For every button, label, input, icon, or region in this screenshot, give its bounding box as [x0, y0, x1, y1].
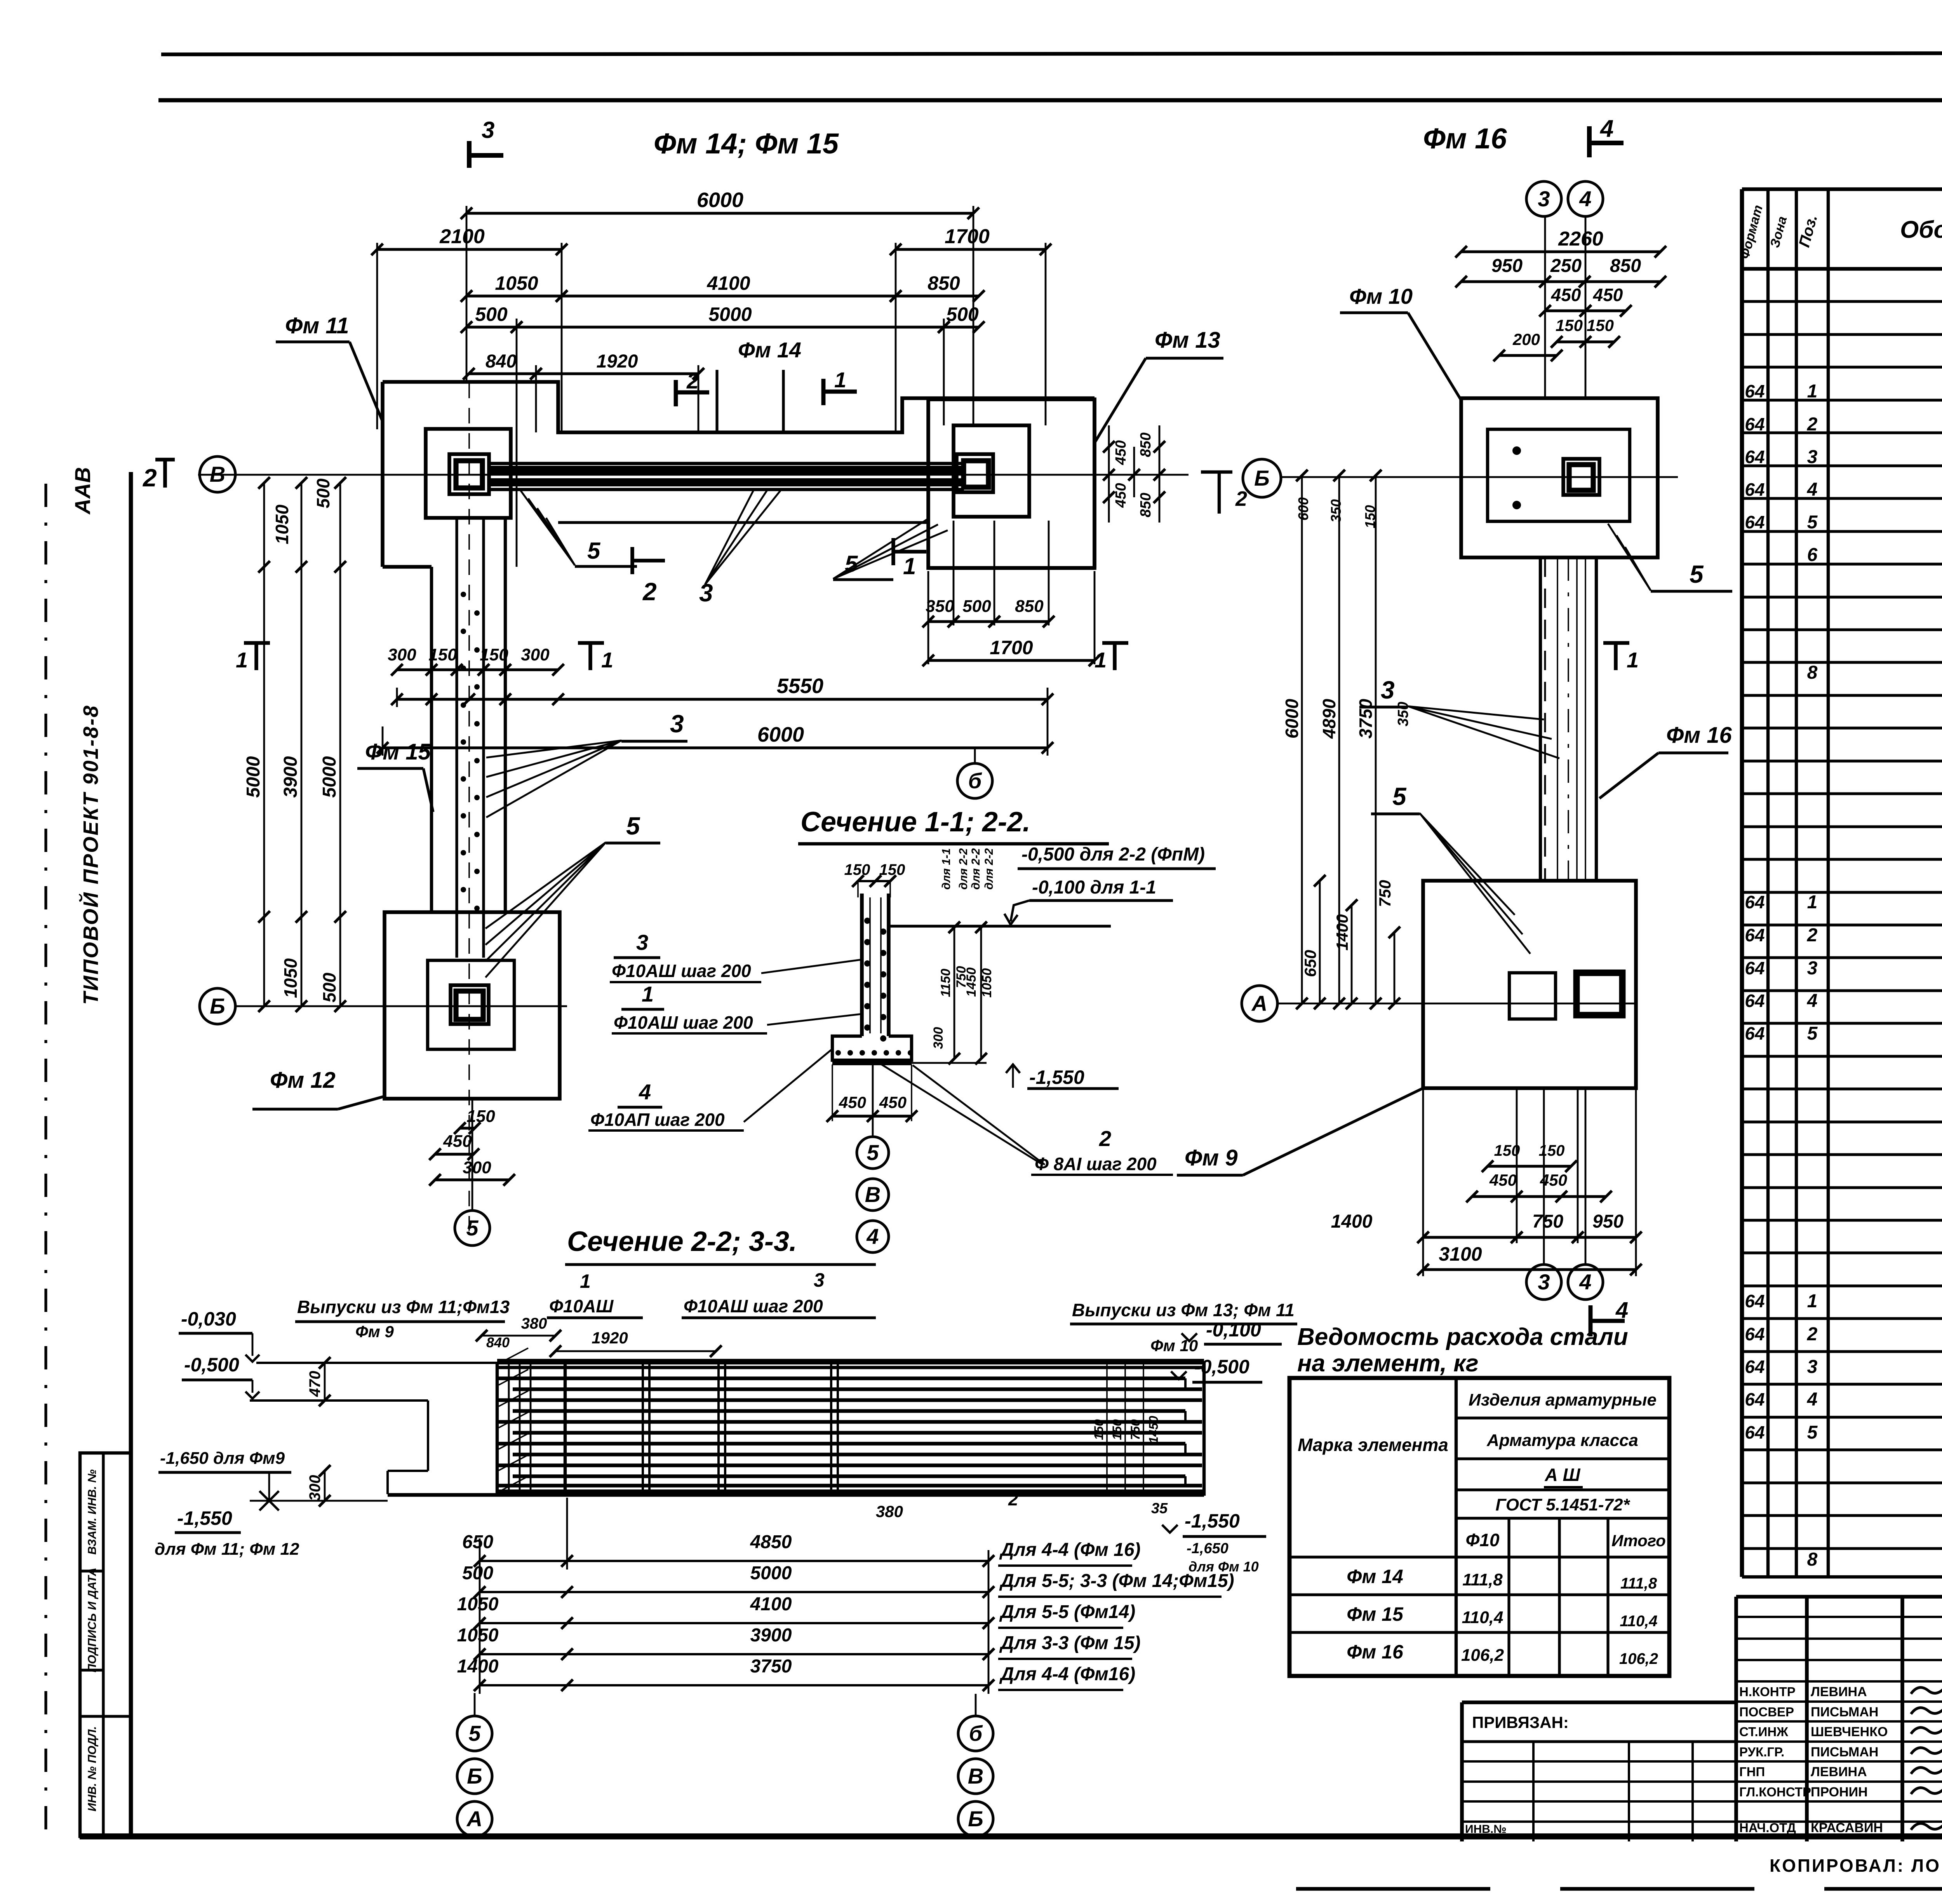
svg-text:200: 200: [1512, 330, 1540, 348]
svg-text:5000: 5000: [243, 756, 264, 798]
svg-text:-1,550: -1,550: [177, 1507, 232, 1529]
svg-text:Ф10АШ: Ф10АШ: [549, 1296, 614, 1316]
spec table row lines: [1742, 300, 1942, 303]
svg-text:150: 150: [466, 1107, 495, 1126]
svg-text:для 1-1: для 1-1: [940, 848, 953, 890]
svg-text:Для 5-5; 3-3 (Фм 14;Фм15): Для 5-5; 3-3 (Фм 14;Фм15): [999, 1571, 1234, 1591]
rotated dims 470 300: [324, 1363, 326, 1401]
svg-text:4850: 4850: [750, 1532, 792, 1552]
svg-text:5: 5: [1807, 512, 1818, 533]
svg-text:ПИСЬМАН: ПИСЬМАН: [1811, 1705, 1878, 1719]
svg-text:5: 5: [1392, 782, 1407, 810]
svg-text:850: 850: [1015, 597, 1044, 616]
svg-text:2: 2: [1807, 1324, 1818, 1345]
svg-text:64: 64: [1745, 892, 1765, 912]
svg-text:3: 3: [670, 710, 684, 738]
svg-text:64: 64: [1745, 1422, 1765, 1442]
wall Фм16: [1539, 557, 1542, 881]
svg-text:64: 64: [1745, 1389, 1765, 1409]
spec table vline: [1740, 189, 1744, 1577]
svg-text:1050: 1050: [980, 968, 994, 998]
svg-text:1050: 1050: [495, 272, 538, 294]
svg-text:ПИСЬМАН: ПИСЬМАН: [1811, 1745, 1878, 1759]
svg-text:500: 500: [475, 303, 508, 325]
svg-text:2: 2: [642, 578, 657, 606]
svg-text:1: 1: [1807, 1291, 1818, 1312]
svg-text:Фм 16: Фм 16: [1666, 723, 1732, 748]
wall top level line: [889, 925, 1111, 927]
svg-text:Б: Б: [467, 1764, 482, 1788]
svg-text:Фм 16: Фм 16: [1347, 1641, 1404, 1663]
attr column box: [80, 1453, 131, 1836]
svg-text:500: 500: [313, 478, 333, 508]
svg-text:150: 150: [1539, 1142, 1565, 1159]
svg-text:1450: 1450: [964, 967, 979, 997]
pad Фм9 lower: [1423, 881, 1636, 1088]
svg-text:Марка элемента: Марка элемента: [1298, 1435, 1448, 1455]
svg-text:Фм 9: Фм 9: [355, 1322, 394, 1341]
svg-text:750: 750: [1532, 1211, 1563, 1232]
pad Фм16 top: [1461, 398, 1658, 557]
svg-text:1: 1: [580, 1270, 591, 1292]
svg-text:Фм 12: Фм 12: [270, 1068, 336, 1093]
svg-text:для 2-2: для 2-2: [957, 848, 970, 890]
svg-text:150: 150: [1556, 316, 1583, 334]
svg-text:300: 300: [388, 645, 416, 664]
svg-text:1400: 1400: [1331, 1211, 1373, 1232]
frame top border: [158, 98, 1942, 103]
svg-text:Фм 15: Фм 15: [365, 739, 431, 765]
svg-text:650: 650: [462, 1532, 493, 1552]
svg-text:4890: 4890: [1319, 699, 1339, 739]
svg-text:3750: 3750: [1356, 699, 1376, 739]
svg-text:Фм 9: Фм 9: [1185, 1145, 1238, 1171]
svg-text:4: 4: [1807, 991, 1818, 1011]
svg-text:4100: 4100: [750, 1594, 792, 1615]
dim 6000 top: [466, 212, 973, 214]
svg-text:5: 5: [1807, 1023, 1818, 1044]
spec table top: [1742, 187, 1942, 191]
rotated dims right of pad: [1108, 425, 1110, 523]
svg-text:1450: 1450: [1147, 1416, 1161, 1443]
frame left border: [129, 472, 133, 1836]
section mark 1 below: [891, 538, 895, 565]
axis line B: [198, 474, 1189, 476]
svg-text:2: 2: [1807, 414, 1818, 435]
svg-text:-0,030: -0,030: [181, 1308, 236, 1330]
svg-text:64: 64: [1745, 447, 1765, 467]
svg-text:150: 150: [844, 861, 870, 878]
left dim verticals 6000/4890/3750: [1301, 476, 1303, 1003]
svg-text:КРАСАВИН: КРАСАВИН: [1811, 1820, 1883, 1835]
beam rebar lines: [497, 1359, 1204, 1364]
sheet bottom edge dashes: [1296, 1887, 1942, 1891]
dims under pad Фм12: [460, 1127, 475, 1129]
svg-text:4: 4: [1579, 186, 1591, 211]
svg-text:Фм 13: Фм 13: [1155, 327, 1220, 353]
svg-text:Фм 14; Фм 15: Фм 14; Фм 15: [654, 127, 839, 160]
svg-text:64: 64: [1745, 414, 1765, 434]
svg-text:64: 64: [1745, 512, 1765, 532]
foundation beam dark band: [489, 466, 964, 475]
svg-text:1: 1: [1807, 892, 1818, 913]
svg-text:Сечение 2-2; 3-3.: Сечение 2-2; 3-3.: [567, 1226, 797, 1257]
bottom circles right stack: [975, 1694, 977, 1716]
section mark 2 below: [630, 547, 634, 574]
svg-text:300: 300: [521, 645, 550, 664]
svg-text:3: 3: [1538, 1270, 1550, 1294]
svg-text:Фм 16: Фм 16: [1423, 122, 1507, 155]
svg-text:850: 850: [927, 272, 960, 294]
svg-text:111,8: 111,8: [1620, 1575, 1657, 1592]
svg-text:5: 5: [1807, 1422, 1818, 1443]
left vertical dim chain: [263, 483, 265, 1006]
svg-text:для Фм 11; Фм 12: для Фм 11; Фм 12: [155, 1540, 299, 1559]
svg-text:-0,500: -0,500: [184, 1354, 239, 1376]
svg-text:Для 4-4 (Фм 16): Для 4-4 (Фм 16): [999, 1540, 1141, 1560]
svg-text:Н.КОНТР: Н.КОНТР: [1739, 1685, 1796, 1699]
svg-text:3750: 3750: [750, 1656, 792, 1677]
svg-text:106,2: 106,2: [1461, 1646, 1504, 1665]
svg-text:Выпуски из Фм 11;Фм13: Выпуски из Фм 11;Фм13: [297, 1297, 510, 1317]
frame bottom border: [80, 1833, 1942, 1840]
svg-text:2: 2: [143, 464, 157, 492]
svg-text:600: 600: [1295, 497, 1311, 521]
svg-text:1: 1: [642, 982, 654, 1006]
svg-text:1920: 1920: [597, 351, 638, 372]
svg-text:1400: 1400: [1333, 914, 1351, 950]
svg-text:1150: 1150: [938, 969, 953, 997]
svg-text:1920: 1920: [592, 1329, 628, 1347]
svg-text:НАЧ.ОТД: НАЧ.ОТД: [1739, 1820, 1796, 1835]
svg-text:ПОСВЕР: ПОСВЕР: [1739, 1705, 1794, 1719]
spec table header bottom: [1742, 267, 1942, 271]
svg-text:2: 2: [1099, 1126, 1111, 1151]
svg-text:3: 3: [1807, 1357, 1818, 1377]
svg-text:-1,550: -1,550: [1185, 1510, 1240, 1532]
svg-text:300: 300: [306, 1475, 324, 1501]
axis circle 5 bottom of wall: [455, 1211, 490, 1246]
axis Б left circle: [200, 988, 235, 1024]
svg-text:А Ш: А Ш: [1544, 1465, 1580, 1485]
svg-text:В: В: [968, 1764, 983, 1788]
svg-text:для 2-2: для 2-2: [983, 848, 995, 890]
svg-text:5: 5: [468, 1721, 481, 1745]
svg-text:Арматура класса: Арматура класса: [1486, 1431, 1638, 1450]
dim row 1050/4100/850: [466, 294, 562, 297]
svg-text:Ведомость расхода стали: Ведомость расхода стали: [1297, 1324, 1628, 1350]
svg-text:ЛЕВИНА: ЛЕВИНА: [1811, 1765, 1867, 1779]
svg-text:2: 2: [1008, 1489, 1018, 1509]
svg-text:650: 650: [1301, 950, 1319, 977]
svg-text:ТИПОВОЙ ПРОЕКТ 901-8-8: ТИПОВОЙ ПРОЕКТ 901-8-8: [78, 704, 103, 1005]
svg-text:1050: 1050: [457, 1625, 499, 1646]
svg-text:ИНВ. № ПОДЛ.: ИНВ. № ПОДЛ.: [86, 1726, 99, 1811]
svg-text:5000: 5000: [708, 303, 752, 325]
wall section: [860, 894, 864, 1036]
svg-text:3: 3: [1381, 676, 1395, 704]
axis circle b under right pad: [974, 748, 976, 763]
svg-text:850: 850: [1138, 432, 1154, 457]
svg-text:1700: 1700: [990, 637, 1033, 658]
svg-text:750: 750: [1128, 1419, 1142, 1440]
svg-text:2: 2: [1807, 925, 1818, 946]
svg-text:б: б: [969, 1721, 983, 1745]
svg-text:350: 350: [1395, 702, 1411, 726]
elevation body left steps: [256, 1362, 498, 1364]
svg-text:Ф10: Ф10: [1465, 1530, 1499, 1550]
svg-text:150: 150: [879, 861, 905, 878]
svg-text:5: 5: [1690, 560, 1704, 588]
svg-text:1050: 1050: [457, 1594, 499, 1615]
svg-text:150: 150: [1092, 1419, 1106, 1440]
svg-text:ПРОНИН: ПРОНИН: [1811, 1785, 1868, 1799]
svg-text:380: 380: [521, 1315, 547, 1332]
svg-text:2100: 2100: [439, 225, 485, 248]
svg-text:Фм 14: Фм 14: [738, 338, 801, 362]
svg-text:4: 4: [1807, 1389, 1818, 1410]
svg-text:Б: Б: [210, 994, 225, 1018]
stirrups: [642, 1362, 644, 1496]
svg-text:64: 64: [1745, 1357, 1765, 1377]
section mark 4 top: [1587, 126, 1592, 157]
svg-text:111,8: 111,8: [1462, 1570, 1503, 1589]
svg-text:64: 64: [1745, 925, 1765, 945]
svg-text:500: 500: [319, 972, 339, 1002]
svg-text:3900: 3900: [280, 756, 301, 798]
rotated stack right: [1106, 1362, 1108, 1496]
svg-text:3: 3: [1538, 186, 1550, 211]
svg-text:300: 300: [463, 1158, 491, 1177]
svg-text:В: В: [210, 462, 225, 486]
svg-text:840: 840: [486, 1334, 510, 1350]
svg-text:Ф10АШ шаг 200: Ф10АШ шаг 200: [684, 1296, 823, 1316]
svg-text:300: 300: [931, 1027, 946, 1049]
svg-text:3100: 3100: [1439, 1243, 1482, 1265]
verticals through Фм16: [1544, 216, 1546, 398]
svg-text:6000: 6000: [757, 723, 804, 746]
svg-text:1050: 1050: [280, 958, 301, 998]
svg-text:3900: 3900: [750, 1625, 792, 1646]
svg-text:3: 3: [1807, 447, 1818, 467]
svg-text:1: 1: [236, 648, 248, 672]
svg-text:на элемент, кг: на элемент, кг: [1297, 1350, 1479, 1377]
axis circle A lower: [1242, 986, 1277, 1021]
left pad Фм11: [426, 429, 511, 518]
svg-text:5000: 5000: [319, 756, 340, 798]
right pad Фм13: [928, 399, 1095, 568]
dim row 450/450: [1545, 309, 1585, 312]
svg-text:-1,650 для Фм9: -1,650 для Фм9: [160, 1449, 285, 1468]
svg-text:-0,500 для 2-2 (ФпМ): -0,500 для 2-2 (ФпМ): [1021, 844, 1205, 865]
svg-text:1700: 1700: [945, 225, 990, 248]
svg-text:Ф 8АI шаг 200: Ф 8АI шаг 200: [1035, 1154, 1157, 1174]
svg-text:1: 1: [1807, 381, 1818, 402]
svg-text:500: 500: [462, 1563, 493, 1583]
section marks 1 left/right of wall: [244, 641, 270, 645]
svg-text:-1,550: -1,550: [1029, 1066, 1084, 1088]
section mark 3 top: [467, 141, 472, 168]
svg-text:450: 450: [839, 1093, 866, 1111]
svg-text:ГЛ.КОНСТР: ГЛ.КОНСТР: [1739, 1785, 1811, 1799]
svg-text:64: 64: [1745, 1291, 1765, 1311]
svg-text:450: 450: [1489, 1171, 1517, 1189]
svg-text:4100: 4100: [706, 272, 750, 294]
svg-text:Фм 14: Фм 14: [1347, 1566, 1403, 1587]
left dims lower pad: [1319, 881, 1321, 1003]
svg-text:КОПИРОВАЛ: ЛОГИНОВА: КОПИРОВАЛ: ЛОГИНОВА: [1770, 1855, 1942, 1876]
svg-text:450: 450: [1113, 483, 1129, 508]
dim row 840/1920: [469, 372, 536, 375]
svg-text:Для 4-4 (Фм16): Для 4-4 (Фм16): [999, 1664, 1135, 1685]
svg-text:2: 2: [1235, 487, 1247, 510]
svg-text:ААВ: ААВ: [70, 467, 95, 515]
svg-text:РУК.ГР.: РУК.ГР.: [1739, 1745, 1784, 1759]
svg-text:5: 5: [626, 812, 640, 840]
svg-text:3: 3: [482, 117, 494, 143]
svg-text:ВЗАМ. ИНВ. №: ВЗАМ. ИНВ. №: [86, 1469, 99, 1554]
title block top: [1736, 1595, 1942, 1599]
svg-text:450: 450: [1113, 440, 1129, 465]
svg-text:для 2-2: для 2-2: [969, 848, 982, 890]
svg-text:350: 350: [1328, 499, 1344, 523]
top trim line: [161, 53, 1942, 54]
svg-text:500: 500: [962, 597, 991, 616]
svg-text:450: 450: [443, 1132, 472, 1151]
wall Фм15 verticals: [430, 567, 433, 912]
svg-text:Сечение 1-1; 2-2.: Сечение 1-1; 2-2.: [800, 807, 1030, 838]
plan outline: [383, 382, 1095, 432]
bottom circles 3 4 of Фм16: [1543, 1088, 1545, 1265]
vedomost steel table: [1289, 1378, 1669, 1676]
privyazan box: [1462, 1700, 1736, 1704]
svg-text:-0,500: -0,500: [1194, 1356, 1249, 1378]
svg-text:6: 6: [1807, 545, 1818, 565]
svg-text:750: 750: [1376, 880, 1394, 907]
svg-text:ИНВ.№: ИНВ.№: [1465, 1823, 1507, 1836]
dim 2100 / 1700: [377, 248, 562, 251]
svg-text:2: 2: [686, 369, 699, 393]
svg-text:-0,100: -0,100: [1206, 1319, 1261, 1341]
svg-text:Обозначение: Обозначение: [1900, 216, 1942, 243]
axis circle В: [200, 456, 235, 492]
svg-text:5: 5: [587, 538, 601, 564]
section mark 4 bottom: [1589, 1305, 1593, 1336]
svg-text:450: 450: [1593, 285, 1623, 305]
svg-text:64: 64: [1745, 1023, 1765, 1043]
svg-text:ПОДПИСЬ И ДАТА: ПОДПИСЬ И ДАТА: [86, 1568, 99, 1672]
svg-text:110,4: 110,4: [1462, 1608, 1503, 1627]
svg-text:1400: 1400: [457, 1656, 499, 1677]
svg-text:Для 5-5 (Фм14): Для 5-5 (Фм14): [999, 1602, 1135, 1622]
svg-text:8: 8: [1807, 1549, 1818, 1570]
svg-text:3: 3: [636, 930, 648, 955]
svg-text:Ф10АШ шаг 200: Ф10АШ шаг 200: [612, 961, 751, 981]
svg-text:6000: 6000: [697, 188, 743, 212]
svg-text:Для 3-3 (Фм 15): Для 3-3 (Фм 15): [999, 1633, 1141, 1653]
svg-text:4: 4: [1599, 115, 1613, 142]
svg-text:5000: 5000: [750, 1563, 792, 1583]
svg-text:1: 1: [1627, 648, 1639, 672]
svg-text:СТ.ИНЖ: СТ.ИНЖ: [1739, 1725, 1788, 1739]
svg-text:Б: Б: [1254, 466, 1270, 490]
svg-text:А: А: [1251, 991, 1267, 1016]
svg-text:5550: 5550: [777, 674, 823, 698]
svg-text:950: 950: [1592, 1211, 1624, 1232]
rotated mini dims right of wall: [954, 927, 955, 1059]
svg-text:-1,650: -1,650: [1187, 1540, 1229, 1557]
svg-text:840: 840: [486, 351, 517, 372]
svg-text:Ф10АШ шаг 200: Ф10АШ шаг 200: [614, 1012, 753, 1033]
svg-text:850: 850: [1610, 256, 1641, 276]
dim row 500/5000/500: [466, 326, 517, 328]
svg-text:150: 150: [1110, 1419, 1124, 1440]
svg-text:450: 450: [1551, 285, 1581, 305]
svg-text:1: 1: [1095, 648, 1107, 672]
sheet left edge dashed: [44, 484, 47, 1838]
svg-text:Фм 10: Фм 10: [1349, 284, 1413, 308]
svg-text:110,4: 110,4: [1620, 1613, 1657, 1630]
svg-text:64: 64: [1745, 958, 1765, 978]
svg-text:б: б: [968, 768, 982, 793]
svg-text:250: 250: [1550, 256, 1582, 276]
svg-text:ПРИВЯЗАН:: ПРИВЯЗАН:: [1472, 1713, 1569, 1732]
axis circles 3 and 4: [1526, 181, 1561, 216]
axis circle Б right: [1243, 459, 1281, 497]
svg-text:Фм 11: Фм 11: [285, 313, 349, 338]
svg-text:150: 150: [1587, 316, 1614, 334]
svg-text:4: 4: [1615, 1298, 1628, 1323]
svg-text:Ф10АП шаг 200: Ф10АП шаг 200: [590, 1110, 725, 1130]
svg-text:850: 850: [1138, 493, 1154, 517]
svg-text:5: 5: [466, 1216, 479, 1240]
svg-text:ЛЕВИНА: ЛЕВИНА: [1811, 1685, 1867, 1699]
svg-text:ГОСТ 5.1451-72*: ГОСТ 5.1451-72*: [1495, 1495, 1630, 1514]
axis line A upper: [1281, 476, 1678, 478]
svg-text:64: 64: [1745, 381, 1765, 401]
svg-text:4: 4: [639, 1080, 651, 1104]
svg-text:1: 1: [903, 553, 916, 579]
svg-text:35: 35: [1151, 1500, 1168, 1517]
dims under right pad: [928, 620, 954, 623]
svg-text:5: 5: [867, 1140, 879, 1165]
dim row 950/250/850: [1461, 280, 1545, 283]
svg-text:4: 4: [866, 1224, 879, 1249]
svg-text:8: 8: [1807, 662, 1818, 683]
svg-text:380: 380: [876, 1502, 903, 1521]
section marks 1 for Фм16 strip: [1102, 641, 1128, 645]
svg-text:ГНП: ГНП: [1739, 1765, 1765, 1779]
svg-text:1050: 1050: [272, 504, 292, 544]
bottom circles left stack: [474, 1693, 476, 1716]
svg-text:4: 4: [1579, 1270, 1591, 1294]
svg-text:4: 4: [1807, 479, 1818, 500]
svg-text:Итого: Итого: [1611, 1531, 1666, 1550]
svg-text:1: 1: [834, 368, 846, 392]
svg-text:2260: 2260: [1558, 228, 1603, 250]
svg-text:64: 64: [1745, 479, 1765, 500]
svg-text:Выпуски из Фм 13; Фм 11: Выпуски из Фм 13; Фм 11: [1072, 1300, 1295, 1320]
left column hatched: [496, 1363, 499, 1495]
svg-text:3: 3: [814, 1269, 825, 1291]
dim extension verticals: [466, 206, 468, 383]
svg-text:-0,100 для 1-1: -0,100 для 1-1: [1032, 877, 1156, 898]
svg-text:Фм 15: Фм 15: [1347, 1603, 1404, 1625]
svg-text:64: 64: [1745, 991, 1765, 1011]
svg-text:В: В: [865, 1182, 881, 1207]
circles 5 В 4: [872, 1064, 874, 1137]
svg-text:3: 3: [1807, 958, 1818, 979]
